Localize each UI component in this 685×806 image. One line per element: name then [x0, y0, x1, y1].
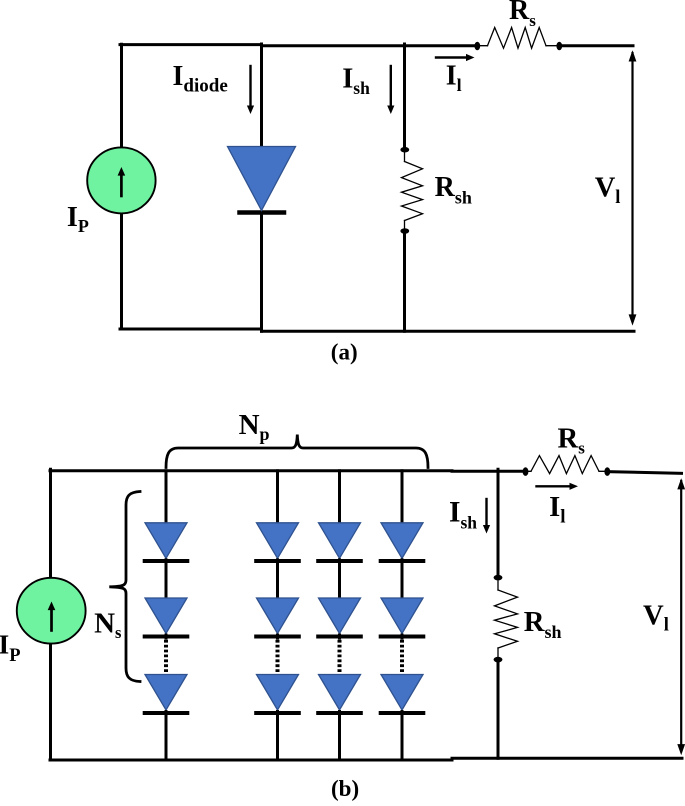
svg-text:Rs: Rs: [558, 422, 586, 457]
svg-text:Il: Il: [549, 492, 565, 528]
svg-text:Vl: Vl: [643, 600, 669, 636]
svg-text:IP: IP: [67, 202, 89, 236]
svg-text:Ish: Ish: [449, 496, 477, 532]
svg-text:Rsh: Rsh: [524, 606, 562, 642]
svg-text:(a): (a): [331, 340, 358, 365]
svg-text:Ish: Ish: [342, 64, 370, 98]
svg-text:Il: Il: [446, 60, 462, 95]
svg-text:Np: Np: [239, 409, 270, 444]
svg-text:Idiode: Idiode: [173, 61, 228, 97]
svg-text:Rs: Rs: [509, 0, 536, 30]
svg-text:IP: IP: [0, 629, 21, 667]
svg-text:(b): (b): [331, 776, 359, 801]
svg-text:Ns: Ns: [94, 607, 122, 642]
svg-text:Rsh: Rsh: [435, 172, 472, 207]
svg-text:Vl: Vl: [595, 172, 621, 208]
